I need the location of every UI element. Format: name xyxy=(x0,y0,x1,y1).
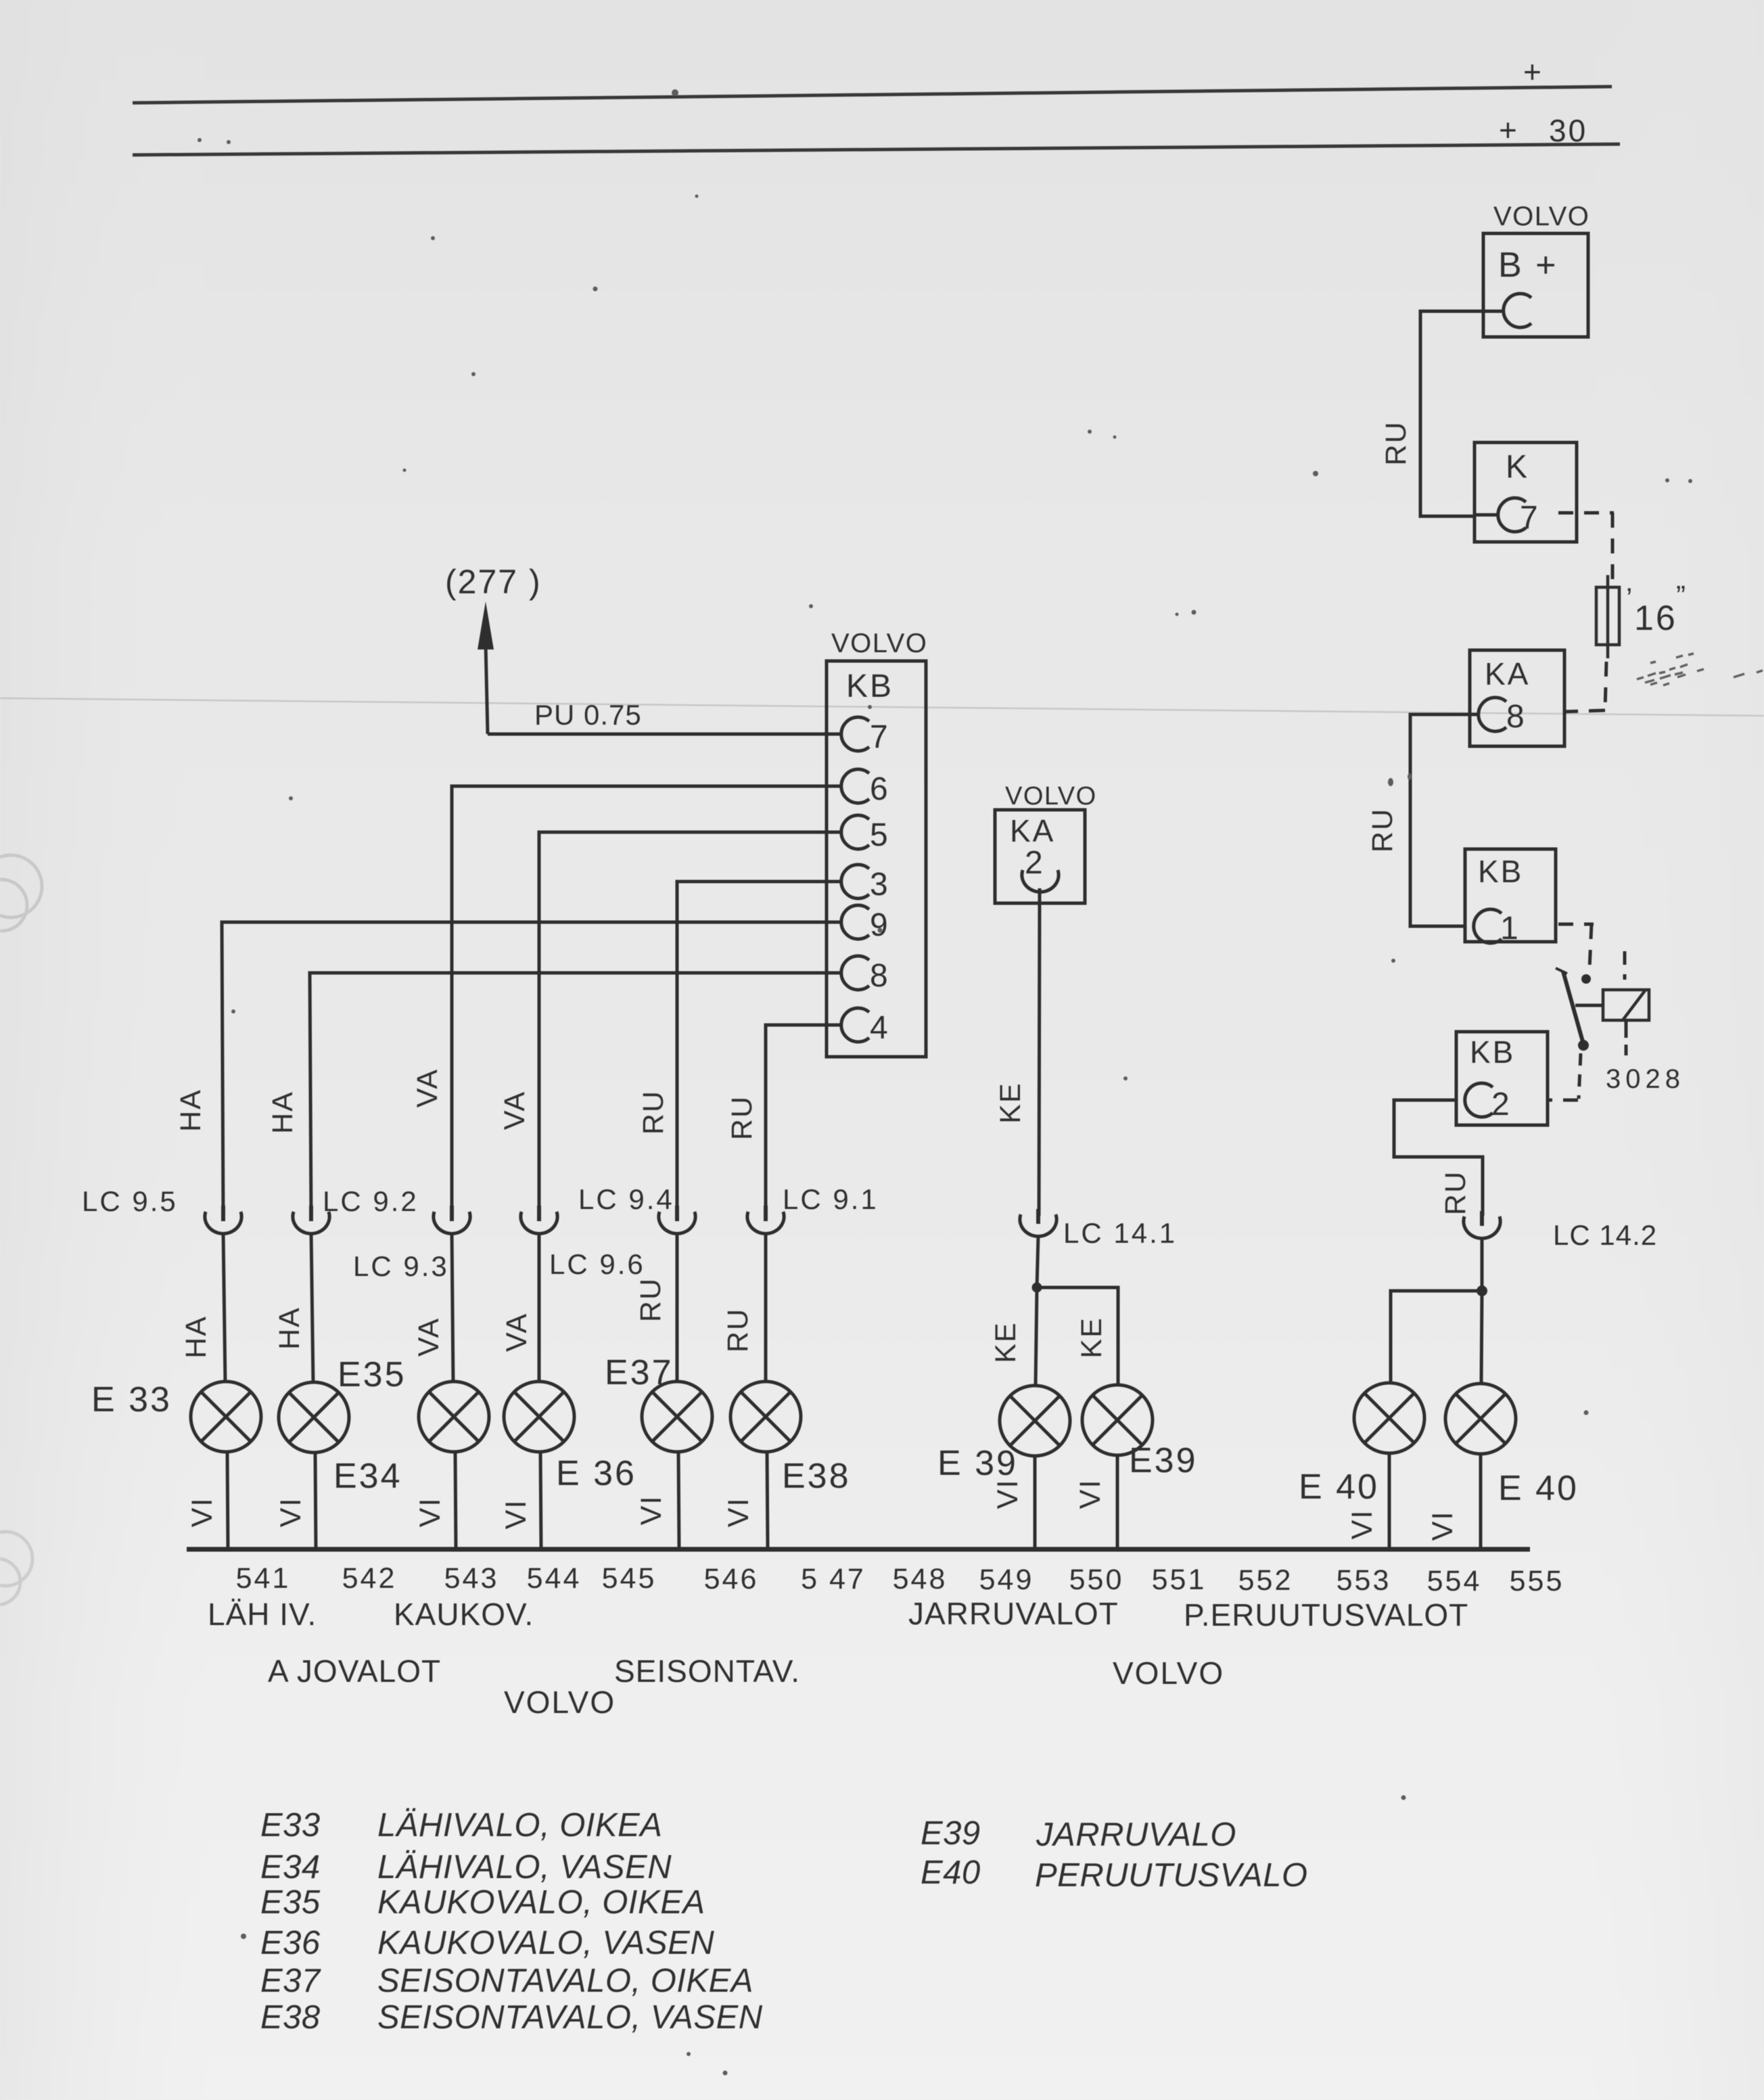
svg-text:5 47: 5 47 xyxy=(801,1563,866,1595)
connector KA 2 box xyxy=(995,810,1085,903)
svg-text:VOLVO: VOLVO xyxy=(831,629,927,658)
wire pin8 to E34 column xyxy=(310,973,841,1214)
switch contact lower xyxy=(1578,1040,1589,1051)
wire pin3 to E37 column xyxy=(677,882,841,1214)
wire pin9 to E33 column xyxy=(222,922,841,1214)
pin C4 of KB xyxy=(841,1008,869,1042)
svg-text:E34: E34 xyxy=(260,1849,321,1886)
switch contact upper xyxy=(1581,974,1591,984)
svg-text:VI: VI xyxy=(414,1497,446,1528)
wire pin4 to E38 column xyxy=(766,1025,841,1214)
svg-text:SEISONTAVALO, VASEN: SEISONTAVALO, VASEN xyxy=(377,1999,763,2036)
svg-text:SEISONTAV.: SEISONTAV. xyxy=(614,1653,800,1689)
wire dashed from fuse to KA xyxy=(1605,662,1606,709)
svg-text:VI: VI xyxy=(635,1495,668,1526)
wire branch to right E39 xyxy=(1037,1287,1118,1384)
pin C8 of KB xyxy=(841,956,869,990)
scan fold artifact line xyxy=(0,698,1764,716)
svg-text:553: 553 xyxy=(1337,1564,1391,1597)
lamp E40 right xyxy=(1445,1384,1516,1454)
svg-text:16: 16 xyxy=(1634,599,1677,638)
svg-text:(277 ): (277 ) xyxy=(445,563,542,601)
svg-text:E35: E35 xyxy=(260,1884,321,1921)
svg-text:RU: RU xyxy=(1366,808,1399,852)
wire dashed from switch to C2 xyxy=(1579,1053,1581,1099)
wire +30 supply line xyxy=(133,144,1620,155)
svg-text:KAUKOVALO, VASEN: KAUKOVALO, VASEN xyxy=(377,1925,714,1961)
pin C8 of KA xyxy=(1479,698,1506,731)
pin C9 of KB xyxy=(841,905,869,939)
connector LC 9.4 xyxy=(659,1212,695,1234)
wire LC to lamp E38 xyxy=(764,1232,768,1383)
wire dashed from C1 to switch xyxy=(1558,923,1594,926)
svg-text:548: 548 xyxy=(893,1563,948,1595)
wire LC to lamp E35 xyxy=(452,1232,453,1383)
connector B+ box xyxy=(1483,233,1588,337)
svg-text:8: 8 xyxy=(870,958,888,994)
svg-text:549: 549 xyxy=(979,1563,1034,1596)
wire + supply line top xyxy=(133,87,1612,103)
smudge left edge upper xyxy=(0,855,42,931)
svg-text:P.ERUUTUSVALOT: P.ERUUTUSVALOT xyxy=(1184,1597,1468,1633)
svg-text:7: 7 xyxy=(1520,500,1538,536)
svg-text:546: 546 xyxy=(704,1563,759,1595)
wire lever to coil xyxy=(1575,1004,1603,1007)
wire PU 0.75 to pin 7 xyxy=(488,733,843,736)
pin C1 of KB xyxy=(1474,909,1502,943)
svg-text:VOLVO: VOLVO xyxy=(1493,202,1589,231)
fuse 16 xyxy=(1596,575,1619,658)
svg-text:PU 0.75: PU 0.75 xyxy=(534,699,642,731)
svg-text:LC 9.2: LC 9.2 xyxy=(323,1185,419,1217)
svg-text:555: 555 xyxy=(1510,1565,1564,1597)
svg-text:JARRUVALO: JARRUVALO xyxy=(1036,1817,1236,1853)
connector LC 9.3 xyxy=(434,1212,470,1234)
svg-text:HA: HA xyxy=(266,1091,299,1134)
svg-text:E 40: E 40 xyxy=(1299,1467,1379,1507)
svg-text:3028: 3028 xyxy=(1606,1064,1685,1094)
svg-text:6: 6 xyxy=(870,771,888,807)
wire lamp E37 to bus xyxy=(678,1452,679,1548)
svg-text:E 40: E 40 xyxy=(1498,1469,1579,1508)
lamp E37 xyxy=(642,1382,712,1452)
svg-text:HA: HA xyxy=(273,1306,306,1350)
svg-text:LC 9.4: LC 9.4 xyxy=(578,1183,674,1215)
connector LC 9.6 xyxy=(521,1212,557,1234)
pin C3 of KB xyxy=(841,865,869,898)
svg-text:LC 9.5: LC 9.5 xyxy=(82,1185,178,1217)
lamp E34 xyxy=(279,1382,349,1453)
svg-text:VI: VI xyxy=(275,1497,307,1528)
relay coil 3028 xyxy=(1603,990,1649,1020)
svg-text:30: 30 xyxy=(1549,113,1587,148)
svg-text:2: 2 xyxy=(1025,845,1043,881)
svg-text:4: 4 xyxy=(870,1010,888,1046)
svg-text:KE: KE xyxy=(994,1082,1027,1123)
svg-text:+: + xyxy=(1499,112,1517,147)
svg-text:”: ” xyxy=(1676,580,1686,612)
connector LC 9.1 xyxy=(747,1212,784,1234)
svg-text:2: 2 xyxy=(1491,1087,1510,1122)
wire RU from KA to KB1 xyxy=(1410,714,1470,926)
svg-text:E 39: E 39 xyxy=(937,1444,1018,1483)
svg-text:1: 1 xyxy=(1500,911,1518,946)
junction node xyxy=(1032,1283,1042,1293)
svg-text:A JOVALOT: A JOVALOT xyxy=(268,1653,441,1689)
connector LC 14.2 xyxy=(1464,1216,1500,1239)
wire lamp E36 to bus xyxy=(540,1452,541,1548)
svg-text:E38: E38 xyxy=(782,1457,851,1496)
pin C of B+ xyxy=(1504,294,1531,327)
svg-text:VI: VI xyxy=(722,1497,755,1528)
svg-text:’: ’ xyxy=(1626,582,1632,614)
svg-text:RU: RU xyxy=(637,1090,670,1135)
svg-text:VOLVO: VOLVO xyxy=(1113,1656,1224,1691)
svg-text:8: 8 xyxy=(1506,699,1525,735)
svg-text:KB: KB xyxy=(1470,1034,1515,1070)
svg-text:K: K xyxy=(1506,449,1527,485)
svg-text:LC 14.2: LC 14.2 xyxy=(1553,1219,1657,1251)
lamp E38 xyxy=(730,1382,801,1452)
lamp E33 xyxy=(191,1382,261,1452)
svg-text:HA: HA xyxy=(175,1089,207,1132)
svg-text:VI: VI xyxy=(186,1497,218,1528)
wire to left E39 xyxy=(1036,1287,1037,1386)
svg-text:543: 543 xyxy=(444,1562,499,1595)
svg-text:9: 9 xyxy=(870,907,888,943)
svg-text:7: 7 xyxy=(870,719,888,755)
ground bus line xyxy=(187,1547,1530,1552)
wire below LC 14.1 xyxy=(1037,1235,1038,1287)
svg-text:552: 552 xyxy=(1238,1564,1293,1597)
svg-text:HA: HA xyxy=(180,1315,212,1359)
svg-text:LC 14.1: LC 14.1 xyxy=(1063,1217,1177,1249)
wire E39 left to bus xyxy=(1034,1456,1037,1548)
relay KA box xyxy=(1470,650,1564,746)
svg-text:B +: B + xyxy=(1498,246,1558,285)
wire pin6 to E35 column xyxy=(452,786,841,1214)
svg-text:VI: VI xyxy=(1426,1511,1459,1541)
wire lamp E38 to bus xyxy=(767,1452,768,1548)
svg-text:JARRUVALOT: JARRUVALOT xyxy=(908,1596,1119,1631)
wire E39 right to bus xyxy=(1116,1455,1119,1548)
svg-text:KE: KE xyxy=(1075,1317,1108,1358)
svg-text:RU: RU xyxy=(722,1308,754,1352)
svg-text:RU: RU xyxy=(726,1095,758,1140)
svg-text:551: 551 xyxy=(1152,1563,1207,1596)
svg-text:E33: E33 xyxy=(260,1807,321,1844)
svg-text:PERUUTUSVALO: PERUUTUSVALO xyxy=(1035,1857,1308,1894)
svg-text:E37: E37 xyxy=(260,1963,321,1999)
wire to right E40 xyxy=(1481,1291,1482,1384)
lamp E36 xyxy=(504,1382,574,1452)
wire dashed below coil xyxy=(1625,1020,1628,1038)
svg-text:E35: E35 xyxy=(338,1355,407,1394)
svg-text:544: 544 xyxy=(527,1562,582,1595)
wire pin5 to E36 column xyxy=(539,832,841,1214)
svg-text:+: + xyxy=(1523,54,1541,89)
svg-text:RU: RU xyxy=(1380,421,1412,465)
svg-text:545: 545 xyxy=(602,1562,657,1595)
arrow to 277 xyxy=(478,601,494,649)
wire dashed above coil xyxy=(1623,951,1627,980)
svg-text:3: 3 xyxy=(870,867,888,903)
svg-text:KA: KA xyxy=(1010,813,1055,848)
lamp E39 right xyxy=(1082,1385,1153,1455)
svg-text:LÄHIVALO, VASEN: LÄHIVALO, VASEN xyxy=(377,1849,672,1886)
relay K box xyxy=(1475,442,1577,542)
svg-text:E37: E37 xyxy=(605,1353,674,1392)
svg-text:E36: E36 xyxy=(260,1925,321,1961)
svg-text:VA: VA xyxy=(413,1317,445,1356)
svg-text:541: 541 xyxy=(236,1562,291,1595)
wire lamp E34 to bus xyxy=(315,1453,316,1548)
svg-text:5: 5 xyxy=(870,817,888,853)
svg-text:E40: E40 xyxy=(921,1854,981,1891)
lamp E35 xyxy=(419,1382,489,1452)
pin C2 of KB2 xyxy=(1465,1083,1493,1117)
svg-text:VI: VI xyxy=(992,1479,1024,1509)
svg-text:KAUKOV.: KAUKOV. xyxy=(394,1597,534,1632)
svg-text:KE: KE xyxy=(990,1321,1022,1363)
pin C6 of KB xyxy=(841,769,869,803)
svg-text:E39: E39 xyxy=(921,1815,981,1852)
svg-text:VA: VA xyxy=(411,1068,444,1108)
lamp E40 left xyxy=(1354,1383,1424,1453)
svg-text:E39: E39 xyxy=(1129,1441,1198,1480)
svg-text:SEISONTAVALO, OIKEA: SEISONTAVALO, OIKEA xyxy=(377,1963,753,1999)
svg-text:KB: KB xyxy=(846,668,893,704)
svg-text:VA: VA xyxy=(498,1091,531,1130)
svg-text:LC 9.1: LC 9.1 xyxy=(783,1183,879,1215)
switch lever xyxy=(1563,972,1583,1044)
connector LC 9.2 xyxy=(293,1212,329,1234)
wire lamp E33 to bus xyxy=(227,1452,228,1548)
wire LC to lamp E36 xyxy=(538,1232,541,1383)
svg-text:KAUKOVALO, OIKEA: KAUKOVALO, OIKEA xyxy=(377,1884,705,1921)
relay KB1 box xyxy=(1465,849,1556,942)
wire below LC 14.2 xyxy=(1481,1237,1484,1291)
wire E40 left to bus xyxy=(1388,1453,1391,1548)
pin C7 of KB xyxy=(841,717,869,751)
wire E40 right to bus xyxy=(1479,1454,1483,1548)
svg-text:E 33: E 33 xyxy=(91,1380,172,1419)
connector KB box xyxy=(827,661,926,1057)
wire LC to lamp E33 xyxy=(223,1232,225,1383)
svg-text:542: 542 xyxy=(342,1562,397,1595)
svg-text:RU: RU xyxy=(634,1277,667,1322)
svg-text:VA: VA xyxy=(501,1312,533,1352)
svg-text:E38: E38 xyxy=(260,1999,321,2036)
svg-text:LÄHIVALO, OIKEA: LÄHIVALO, OIKEA xyxy=(377,1807,662,1844)
smudge left edge lower xyxy=(0,1532,32,1605)
svg-text:VOLVO: VOLVO xyxy=(504,1685,616,1720)
svg-text:VI: VI xyxy=(1074,1479,1107,1509)
pin C7 of K xyxy=(1498,498,1526,532)
wire KE from KA2 down xyxy=(1039,888,1040,1216)
wire LC to lamp E37 xyxy=(676,1232,679,1383)
svg-text:KA: KA xyxy=(1485,656,1530,691)
svg-text:554: 554 xyxy=(1427,1565,1482,1597)
svg-text:550: 550 xyxy=(1069,1563,1124,1596)
svg-text:E 36: E 36 xyxy=(556,1454,636,1493)
svg-text:VI: VI xyxy=(500,1499,532,1530)
lamp E39 left xyxy=(1000,1386,1070,1456)
svg-text:LC 9.3: LC 9.3 xyxy=(353,1250,449,1282)
wire branch to left E40 xyxy=(1391,1291,1482,1383)
wire RU from B+ to K xyxy=(1420,311,1483,516)
wire dashed from C7 to fuse xyxy=(1558,511,1614,515)
svg-text:VOLVO: VOLVO xyxy=(1005,782,1097,811)
svg-text:VI: VI xyxy=(1346,1509,1378,1540)
pencil scribble smudge xyxy=(1637,654,1763,685)
wire RU from C2 down to E40 lamps xyxy=(1394,1100,1483,1216)
relay KB2 box xyxy=(1456,1032,1548,1125)
pin C5 of KB xyxy=(841,815,869,849)
svg-text:RU: RU xyxy=(1439,1170,1472,1215)
svg-text:KB: KB xyxy=(1478,854,1523,889)
junction node xyxy=(1477,1285,1487,1296)
wire lamp E35 to bus xyxy=(455,1452,456,1548)
svg-text:E34: E34 xyxy=(333,1457,402,1496)
legend xyxy=(260,1807,1308,2036)
svg-text:LC 9.6: LC 9.6 xyxy=(549,1248,645,1280)
wire LC to lamp E34 xyxy=(311,1232,313,1383)
connector LC 9.5 xyxy=(205,1212,241,1234)
connector LC 14.1 xyxy=(1020,1214,1057,1237)
svg-text:LÄH IV.: LÄH IV. xyxy=(208,1597,317,1632)
